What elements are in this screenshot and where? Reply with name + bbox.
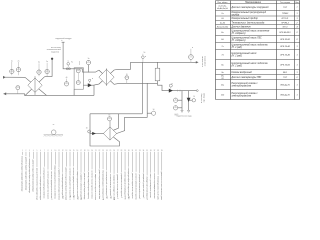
top labels: [47, 37, 192, 118]
svg-text:Наименование: Наименование: [245, 2, 262, 4]
svg-text:3а: 3а: [88, 58, 90, 60]
svg-text:2а: 2а: [18, 60, 20, 62]
tag numbers and labels: [11, 47, 195, 129]
svg-text:состояние циркуляционного насо: состояние циркуляционного насоса 1: [46, 170, 48, 199]
svg-text:39: 39: [161, 150, 163, 152]
svg-text:32: 32: [135, 150, 137, 152]
svg-text:ТЕ: ТЕ: [38, 71, 40, 73]
svg-text:(Н. 1 раб): (Н. 1 раб): [232, 47, 242, 49]
svg-text:питание контроллера автоматики: питание контроллера автоматики: [153, 173, 155, 199]
svg-text:КВ-1: КВ-1: [283, 72, 287, 74]
svg-text:ТСП: ТСП: [283, 77, 288, 79]
svg-text:27: 27: [117, 150, 119, 152]
svg-text:м: м: [171, 83, 172, 85]
svg-text:33: 33: [139, 150, 141, 152]
svg-text:37: 37: [154, 150, 156, 152]
svg-text:ТЕ: ТЕ: [88, 61, 90, 63]
svg-text:1в: 1в: [221, 13, 223, 15]
svg-text:давление воды в подающем трубо: давление воды в подающем трубопроводе: [24, 157, 26, 190]
svg-text:температура воды в контуре ГВС: температура воды в контуре ГВС: [61, 173, 63, 199]
svg-text:резервный дискретный сигнал 2: резервный дискретный сигнал 2: [142, 174, 145, 199]
flow arrows: [3, 61, 199, 95]
drain triangles: [181, 110, 190, 112]
svg-text:16: 16: [77, 150, 79, 152]
heat exchanger diamond 1: [28, 76, 42, 95]
svg-text:давление холодной воды на ввод: давление холодной воды на вводе: [83, 173, 86, 200]
svg-text:VB2 Ду 20: VB2 Ду 20: [280, 94, 290, 96]
svg-text:18: 18: [84, 150, 86, 152]
svg-text:Измерительный прибор: Измерительный прибор: [232, 17, 259, 20]
svg-text:6б: 6б: [108, 115, 110, 117]
svg-text:Датчик температуры погружной: Датчик температуры погружной: [231, 6, 270, 9]
svg-text:17: 17: [80, 150, 82, 152]
svg-text:состояние насоса подпитки сист: состояние насоса подпитки системы: [90, 170, 92, 199]
wall hatch with room sensor: [44, 135, 64, 137]
svg-text:состояние циркуляционного насо: состояние циркуляционного насоса ГВС 1: [68, 167, 70, 199]
svg-text:31: 31: [132, 150, 134, 152]
svg-text:9а: 9а: [71, 62, 73, 64]
svg-text:(Н. 1/2факт): (Н. 1/2факт): [232, 39, 246, 42]
svg-text:Поз. обозн.: Поз. обозн.: [217, 2, 228, 4]
svg-text:авария циркуляционного насоса: авария циркуляционного насоса отопления: [54, 165, 56, 198]
svg-text:38: 38: [157, 150, 159, 152]
svg-text:ТЕ: ТЕ: [175, 99, 177, 101]
svg-text:ТЕ: ТЕ: [109, 117, 111, 119]
svg-text:UPS 32-80: UPS 32-80: [280, 39, 291, 41]
svg-text:3а,3б: 3а,3б: [220, 22, 226, 24]
svg-text:состояние циркуляционного насо: состояние циркуляционного насоса ГВС 2: [72, 167, 74, 199]
svg-text:управление насосом подпитки 1: управление насосом подпитки 1: [116, 174, 118, 199]
svg-text:(Н. 1 раб): (Н. 1 раб): [232, 56, 242, 58]
svg-text:1: 1: [296, 18, 297, 20]
svg-text:температура воздуха в помещени: температура воздуха в помещении ИТП: [101, 170, 103, 200]
svg-text:Подпиточная вода: Подпиточная вода: [176, 116, 191, 118]
svg-text:ТЕ: ТЕ: [46, 70, 48, 72]
heat exchanger diamond 3: [103, 121, 116, 140]
svg-text:4а,4б,5а,5б: 4а,4б,5а,5б: [217, 7, 228, 10]
svg-text:1: 1: [296, 72, 297, 74]
svg-text:управление насосом подпитки 2: управление насосом подпитки 2: [120, 173, 122, 198]
svg-text:авария циркуляционного насоса: авария циркуляционного насоса ГВС: [76, 171, 78, 200]
svg-text:36: 36: [150, 150, 152, 152]
svg-text:Датчик температуры ГВС: Датчик температуры ГВС: [231, 77, 262, 79]
instrument bubbles: [10, 55, 199, 135]
svg-text:связь с диспетчерским пунктом: связь с диспетчерским пунктом: [149, 174, 151, 199]
svg-text:21: 21: [95, 150, 97, 152]
svg-text:ТРМ32: ТРМ32: [282, 13, 289, 15]
fill symbol top of v1: [51, 58, 53, 60]
svg-text:14: 14: [69, 150, 71, 152]
svg-text:28: 28: [121, 150, 123, 152]
svg-text:ТЕ: ТЕ: [126, 76, 128, 78]
svg-text:(Н. 1 раб): (Н. 1 раб): [232, 66, 242, 68]
svg-text:прибор: прибор: [232, 14, 240, 16]
svg-text:10: 10: [86, 128, 88, 130]
table text: [217, 2, 300, 98]
svg-text:1: 1: [296, 84, 297, 86]
svg-text:тв: тв: [53, 124, 55, 126]
svg-text:34: 34: [143, 150, 145, 152]
svg-text:26: 26: [113, 150, 115, 152]
svg-text:управление клапаном контура ГВ: управление клапаном контура ГВС: [79, 174, 81, 201]
svg-text:23: 23: [102, 150, 104, 152]
svg-text:24: 24: [106, 150, 108, 152]
svg-text:электроприводом: электроприводом: [232, 95, 252, 98]
svg-text:состояние циркуляционного насо: состояние циркуляционного насоса 2: [50, 171, 52, 200]
svg-text:25: 25: [110, 150, 112, 152]
svg-text:UPS 40-60 F: UPS 40-60 F: [279, 31, 291, 34]
svg-text:Тип, марка: Тип, марка: [280, 2, 291, 4]
bottom signal strip: [22, 152, 161, 176]
svg-text:ТЕ: ТЕ: [190, 56, 192, 58]
svg-text:10: 10: [54, 150, 56, 152]
svg-text:Датчик давления: Датчик давления: [231, 25, 252, 28]
svg-text:расход холодной воды на подпит: расход холодной воды на подпитку: [87, 172, 90, 199]
svg-text:1: 1: [22, 150, 23, 152]
svg-text:гор. воды: гор. воды: [204, 93, 206, 103]
svg-text:1: 1: [296, 13, 297, 15]
svg-text:VB2 Ду 25: VB2 Ду 25: [280, 84, 290, 86]
piping lines: [3, 42, 196, 146]
svg-text:расход теплоносителя в подающе: расход теплоносителя в подающем тр-де: [35, 168, 37, 200]
svg-text:Тепловычисл. датчик расхода: Тепловычисл. датчик расхода: [232, 21, 265, 24]
svg-text:ТЕ: ТЕ: [18, 68, 20, 70]
svg-text:4а: 4а: [38, 62, 40, 64]
svg-text:19: 19: [88, 150, 90, 152]
svg-text:20: 20: [91, 150, 93, 152]
svg-text:температура воды в обратном тр: температура воды в обратном трубопроводе: [28, 158, 30, 193]
svg-text:UPS 25-40: UPS 25-40: [280, 53, 291, 56]
svg-text:ТЕ: ТЕ: [66, 82, 68, 84]
svg-text:1: 1: [296, 46, 297, 48]
svg-text:35: 35: [146, 150, 148, 152]
svg-text:ТСП: ТСП: [283, 7, 288, 9]
svg-text:давление воды в линии подпитки: давление воды в линии подпитки: [131, 173, 133, 199]
svg-text:м: м: [92, 78, 93, 80]
svg-text:2б: 2б: [126, 74, 128, 76]
svg-text:электроприводом: электроприводом: [232, 85, 252, 88]
svg-text:ТЕ: ТЕ: [77, 81, 79, 83]
svg-text:29: 29: [124, 150, 126, 152]
svg-text:5а: 5а: [46, 61, 48, 63]
svg-text:ТЕ: ТЕ: [77, 69, 79, 71]
svg-text:наружный воздух: наружный воздух: [55, 37, 71, 40]
svg-text:UPS 25-40: UPS 25-40: [280, 45, 291, 48]
svg-text:5б: 5б: [143, 52, 145, 54]
svg-text:обобщенный сигнал аварии ИТП: обобщенный сигнал аварии ИТП: [145, 176, 148, 200]
svg-text:ТЕ: ТЕ: [175, 106, 177, 108]
svg-text:11: 11: [58, 150, 60, 152]
svg-text:1: 1: [296, 94, 297, 96]
svg-text:ИТП-11: ИТП-11: [282, 18, 289, 20]
svg-text:10: 10: [193, 96, 195, 98]
svg-text:1: 1: [296, 64, 297, 66]
svg-text:7: 7: [44, 150, 45, 152]
rect block R1: [74, 68, 83, 89]
svg-text:температура воды в подающем тр: температура воды в подающем трубопроводе: [21, 156, 23, 192]
svg-text:температура обратной воды конт: температура обратной воды контура ГВС: [127, 168, 130, 201]
svg-text:12: 12: [62, 150, 64, 152]
svg-text:сигнал затопления приямка ИТП: сигнал затопления приямка ИТП: [109, 174, 111, 200]
expansion tank: [155, 68, 160, 81]
svg-text:(Н. 1/2факт): (Н. 1/2факт): [232, 32, 246, 35]
svg-text:давление воды в обратном трубо: давление воды в обратном трубопроводе: [32, 160, 34, 192]
svg-text:сигнал датчика температуры ото: сигнал датчика температуры отопления: [43, 168, 45, 199]
svg-text:давление в системе отопления д: давление в системе отопления дома: [160, 171, 162, 200]
svg-text:м: м: [68, 61, 69, 63]
svg-text:уровень воды в расширительном: уровень воды в расширительном баке: [98, 170, 100, 200]
vertical outlet labels: [201, 56, 207, 103]
svg-text:управление клапаном контура от: управление клапаном контура отопления: [57, 168, 59, 200]
instrument leader lines: [12, 49, 191, 94]
component table: [216, 1, 300, 100]
svg-text:ТЕ: ТЕ: [11, 70, 13, 72]
svg-text:UPS 25-60: UPS 25-60: [280, 64, 291, 66]
svg-text:сигнал пожарной сигнализации И: сигнал пожарной сигнализации ИТП: [123, 171, 126, 200]
svg-text:15: 15: [73, 150, 75, 152]
svg-text:напряжение питающей сети 380В: напряжение питающей сети 380В: [112, 175, 115, 200]
svg-text:13: 13: [66, 150, 68, 152]
svg-text:давление воды в циркуляционном: давление воды в циркуляционном контуре: [65, 167, 67, 200]
svg-text:4в,5в,9в,10в: 4в,5в,9в,10в: [217, 25, 228, 28]
svg-text:4б: 4б: [66, 77, 68, 79]
svg-text:9: 9: [51, 150, 52, 152]
svg-text:отопления: отопления: [205, 56, 207, 66]
svg-text:22: 22: [99, 150, 101, 152]
heat exchanger diamond 2: [99, 68, 114, 86]
svg-text:температура смеси после узла: температура смеси после узла: [156, 176, 158, 200]
svg-text:состояние клапана линии подпит: состояние клапана линии подпитки: [134, 173, 136, 200]
svg-text:сигнал охранной сигнализации И: сигнал охранной сигнализации ИТП: [105, 171, 108, 199]
svg-text:1: 1: [296, 54, 297, 56]
control valves (black): [88, 83, 191, 135]
svg-text:резервный аналоговый сигнал 1: резервный аналоговый сигнал 1: [138, 174, 141, 199]
svg-text:Клапан воздушный: Клапан воздушный: [232, 71, 253, 74]
svg-text:м: м: [145, 56, 146, 58]
svg-text:1а: 1а: [11, 60, 13, 62]
svg-text:подпитки: подпитки: [51, 51, 59, 53]
svg-text:2: 2: [26, 150, 27, 152]
svg-text:авария насоса подпитки системы: авария насоса подпитки системы: [94, 174, 96, 200]
svg-text:ПРЭМ-2: ПРЭМ-2: [281, 22, 290, 24]
svg-text:ТЕ: ТЕ: [17, 86, 19, 88]
svg-text:9б: 9б: [153, 109, 155, 111]
svg-text:м: м: [192, 47, 193, 49]
svg-text:температура наружного воздуха: температура наружного воздуха: [39, 176, 41, 201]
svg-text:30: 30: [128, 150, 130, 152]
svg-text:8: 8: [48, 150, 49, 152]
